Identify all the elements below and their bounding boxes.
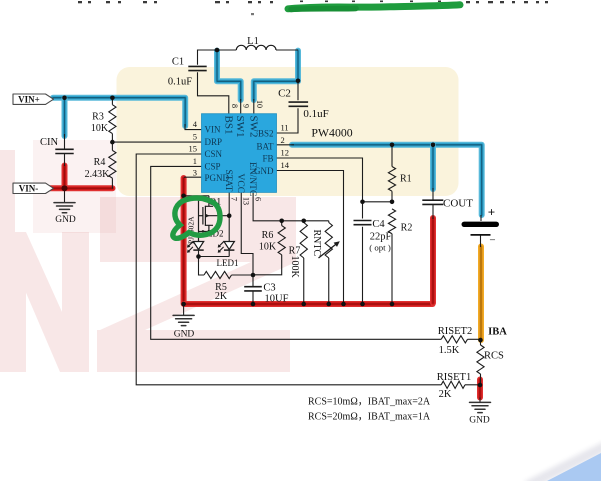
svg-text:GND: GND bbox=[174, 330, 195, 340]
wire gnd2 stem bbox=[183, 304, 185, 315]
svg-text:10: 10 bbox=[255, 100, 264, 108]
svg-text:14: 14 bbox=[281, 160, 290, 170]
svg-text:7: 7 bbox=[230, 197, 239, 201]
wire COUT blue stub bbox=[430, 145, 436, 189]
svg-text:6: 6 bbox=[253, 197, 262, 201]
wire BAT pin lead bbox=[277, 144, 295, 146]
resistor R1 bbox=[388, 167, 395, 192]
wire gnd3 stem bbox=[479, 398, 481, 403]
wire RNTC leads bbox=[328, 221, 330, 304]
wire battery to IBA orange bbox=[478, 247, 484, 341]
wire R2 bottom lead bbox=[391, 234, 393, 304]
svg-text:CSN: CSN bbox=[205, 149, 223, 159]
ground GND2 bbox=[173, 315, 194, 325]
wire R6 leads bbox=[253, 221, 282, 275]
svg-text:10K: 10K bbox=[259, 242, 277, 253]
resistor R5 bbox=[204, 271, 232, 278]
svg-text:8: 8 bbox=[230, 104, 239, 108]
svg-text:R4: R4 bbox=[94, 157, 106, 168]
resistor R4 bbox=[109, 150, 116, 178]
wire VIN+ blue rail bbox=[53, 98, 185, 126]
wire R3 top lead bbox=[111, 98, 113, 105]
transistor Q1 bbox=[184, 196, 230, 241]
wire R4 bottom lead bbox=[111, 178, 113, 188]
wire RISET1 right lead bbox=[465, 384, 480, 386]
svg-text:CSP: CSP bbox=[205, 162, 221, 172]
svg-text:PJ2302A: PJ2302A bbox=[187, 216, 196, 244]
svg-text:C1: C1 bbox=[172, 57, 184, 68]
svg-text:RNTC: RNTC bbox=[311, 230, 322, 257]
wire C3 leads bbox=[252, 275, 254, 304]
wire COUT to ground red leg bbox=[430, 218, 436, 303]
svg-text:13: 13 bbox=[242, 197, 251, 205]
junction dot VIN-/CIN bbox=[62, 185, 68, 191]
wire SW1 blue (L1 left node to pin 9) bbox=[217, 51, 241, 100]
wire gnd1 stem bbox=[64, 188, 66, 202]
svg-text:PW4000: PW4000 bbox=[311, 126, 352, 140]
svg-text:( opt ): ( opt ) bbox=[369, 243, 391, 253]
wire C2 branch bbox=[277, 81, 299, 133]
svg-text:RISET1: RISET1 bbox=[437, 372, 471, 383]
wire FB route + node bbox=[277, 158, 393, 202]
junction dots bbox=[62, 96, 67, 101]
svg-text:VCC: VCC bbox=[235, 174, 245, 194]
svg-text:BAT: BAT bbox=[256, 141, 274, 151]
wire VIN- red rail bbox=[33, 185, 113, 191]
svg-text:GND: GND bbox=[469, 416, 490, 426]
wire COUT leads bbox=[432, 188, 434, 219]
resistor RISET2 bbox=[441, 336, 467, 343]
svg-text:R6: R6 bbox=[262, 230, 274, 241]
svg-text:C4: C4 bbox=[372, 219, 385, 230]
wire CSN route bbox=[136, 154, 441, 385]
svg-text:22pF: 22pF bbox=[370, 232, 392, 243]
wire PGND red leg bbox=[181, 178, 187, 304]
capacitor CIN bbox=[55, 149, 73, 153]
resistor R6 bbox=[278, 226, 285, 255]
svg-text:R2: R2 bbox=[401, 223, 413, 234]
wire GND pin route bbox=[277, 171, 344, 305]
LED1 bbox=[218, 242, 235, 253]
svg-text:IBA: IBA bbox=[488, 327, 507, 338]
svg-text:EN/NTC: EN/NTC bbox=[247, 162, 257, 196]
svg-text:11: 11 bbox=[281, 123, 289, 133]
svg-text:GND: GND bbox=[55, 215, 76, 225]
svg-text:CIN: CIN bbox=[40, 137, 59, 148]
svg-text:FB: FB bbox=[262, 153, 273, 163]
svg-text:3: 3 bbox=[193, 167, 197, 177]
svg-text:R3: R3 bbox=[92, 112, 104, 123]
svg-text:RCS: RCS bbox=[484, 351, 504, 362]
resistor RCS bbox=[477, 345, 484, 374]
svg-text:R1: R1 bbox=[400, 174, 412, 185]
svg-text:BS1: BS1 bbox=[223, 116, 235, 135]
capacitor C3 bbox=[244, 287, 262, 291]
svg-text:SW1: SW1 bbox=[234, 116, 246, 138]
svg-text:VIN: VIN bbox=[205, 125, 221, 135]
watermark pink letters bbox=[0, 140, 296, 372]
svg-text:VIN+: VIN+ bbox=[18, 95, 40, 105]
wire VCC route bbox=[241, 192, 253, 275]
green marker underline bbox=[288, 5, 460, 10]
svg-text:VIN-: VIN- bbox=[19, 184, 39, 194]
wire PGND pin lead bbox=[184, 176, 202, 178]
port VIN+ bbox=[13, 94, 54, 104]
svg-text:+: + bbox=[488, 205, 495, 220]
resistor R7 bbox=[300, 223, 307, 259]
wire EN/NTC route bbox=[253, 192, 329, 220]
svg-text:2K: 2K bbox=[215, 291, 228, 302]
capacitor C1 bbox=[188, 66, 206, 70]
svg-text:5: 5 bbox=[193, 132, 197, 142]
svg-text:0.1uF: 0.1uF bbox=[168, 77, 192, 88]
LED2 bbox=[187, 242, 204, 253]
inductor L1 bbox=[236, 45, 276, 50]
port VIN- bbox=[13, 183, 54, 193]
resistor RISET1 bbox=[441, 381, 465, 388]
wire BAT blue rail bbox=[292, 145, 482, 215]
svg-text:L1: L1 bbox=[247, 36, 259, 47]
wire VIN+ to CIN blue stub bbox=[62, 99, 68, 137]
wire R1 leads bbox=[391, 145, 393, 202]
wire R5 leads bbox=[199, 257, 254, 276]
svg-text:2: 2 bbox=[281, 135, 285, 145]
resistor R3 bbox=[109, 105, 116, 134]
wire CIN to VIN- red bbox=[62, 166, 68, 188]
page corner blue bbox=[527, 446, 601, 481]
yellow highlight panel bbox=[117, 67, 459, 196]
svg-text:10UF: 10UF bbox=[265, 294, 289, 305]
capacitor C4 bbox=[354, 221, 372, 225]
wire pin9 pin10 stubs bbox=[241, 99, 254, 114]
svg-text:15: 15 bbox=[189, 144, 198, 154]
top cropped text remnants bbox=[78, 1, 548, 16]
svg-text:0.1uF: 0.1uF bbox=[303, 108, 328, 120]
wire SW2 blue (pin 10 to L1 right node) bbox=[254, 51, 298, 100]
svg-text:COUT: COUT bbox=[443, 198, 473, 210]
svg-text:STAT: STAT bbox=[223, 170, 233, 192]
svg-text:RISET2: RISET2 bbox=[438, 326, 472, 337]
svg-text:2K: 2K bbox=[439, 389, 452, 400]
wire CIN leads bbox=[64, 134, 66, 166]
svg-text:BS2: BS2 bbox=[258, 128, 274, 138]
wire battery leads bbox=[480, 215, 483, 247]
svg-text:10K: 10K bbox=[91, 123, 109, 134]
svg-text:9: 9 bbox=[242, 104, 251, 108]
svg-text:C3: C3 bbox=[263, 283, 275, 294]
wire CSP route bbox=[151, 166, 442, 339]
thermistor RNTC bbox=[325, 223, 332, 259]
wire R7 leads bbox=[303, 221, 305, 304]
resistor R2 bbox=[388, 209, 395, 234]
wire C4 leads bbox=[362, 202, 364, 304]
svg-text:C2: C2 bbox=[278, 88, 291, 100]
svg-text:RCS=10mΩ，IBAT_max=2A: RCS=10mΩ，IBAT_max=2A bbox=[308, 397, 431, 408]
ground GND3 bbox=[470, 402, 491, 412]
wire L1 leads bbox=[217, 49, 298, 51]
wire RISET1 red stub bbox=[477, 380, 483, 398]
green marker circle on Q1 bbox=[173, 198, 220, 238]
wire LED cathode rail bbox=[199, 250, 230, 257]
capacitor COUT bbox=[422, 200, 443, 204]
svg-text:1: 1 bbox=[193, 156, 197, 166]
svg-text:100K: 100K bbox=[289, 256, 300, 279]
wire C1 top branch bbox=[198, 50, 218, 65]
ground GND1 bbox=[54, 203, 75, 213]
wire RCS leads bbox=[480, 340, 482, 385]
wire RISET2 right lead bbox=[468, 338, 481, 340]
wire STAT route bbox=[228, 192, 230, 241]
wire DRP node line bbox=[112, 134, 201, 151]
wire ground red rail bbox=[184, 301, 433, 307]
wire VIN+ pin stub bbox=[185, 124, 202, 130]
battery BT1 bbox=[462, 205, 500, 247]
IC U1 PW4000 body bbox=[202, 114, 277, 193]
wire C1 bottom to BS1 bbox=[198, 72, 229, 113]
svg-text:LED1: LED1 bbox=[217, 258, 239, 268]
svg-text:DRP: DRP bbox=[205, 137, 223, 147]
svg-text:SW2: SW2 bbox=[247, 116, 259, 138]
svg-text:2.43K: 2.43K bbox=[85, 169, 111, 180]
capacitor C2 bbox=[289, 102, 309, 106]
svg-text:−: − bbox=[489, 235, 495, 247]
svg-text:RCS=20mΩ，IBAT_max=1A: RCS=20mΩ，IBAT_max=1A bbox=[308, 412, 431, 423]
svg-text:1.5K: 1.5K bbox=[439, 345, 460, 356]
svg-text:12: 12 bbox=[281, 148, 290, 158]
